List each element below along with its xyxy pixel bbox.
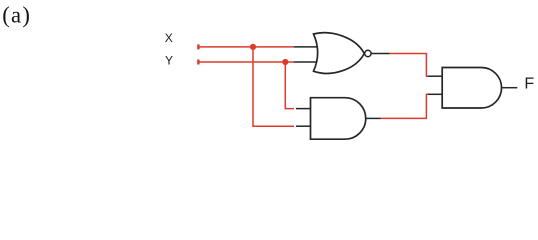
- NOR U1 input stub 2 (black): [294, 61, 317, 63]
- AND U3 output stub (black): [502, 87, 518, 89]
- AND U2 input stub 1 (black): [296, 108, 311, 110]
- wire NOR output to AND U3 upper input (red): [390, 54, 430, 77]
- AND U3 input stub 2 (black): [428, 93, 443, 95]
- AND U2 input stub 2 (black): [296, 125, 311, 127]
- junction dot on Y wire: [282, 59, 288, 65]
- wire X input terminal tick: [197, 44, 199, 49]
- and gate U2 body: [311, 98, 366, 140]
- AND U3 input stub 1 (black): [428, 75, 443, 77]
- AND U2 output stub (black): [366, 117, 381, 119]
- wire Y input terminal tick: [197, 60, 199, 65]
- wire AND U2 output to AND U3 lower input (red): [381, 94, 430, 118]
- nor gate U1 output bubble: [365, 50, 371, 56]
- wire Y input horizontal: [198, 61, 294, 63]
- svg-text:X: X: [165, 31, 173, 45]
- NOR U1 output stub (black): [371, 53, 389, 55]
- svg-text:Y: Y: [165, 54, 173, 68]
- wire X input horizontal: [198, 46, 294, 48]
- junction dot on X wire: [250, 44, 256, 50]
- and gate U3 body: [442, 68, 501, 109]
- NOR U1 input stub 1 (black): [294, 46, 317, 48]
- svg-text:F: F: [524, 76, 534, 93]
- wire X branch down to AND U2 lower input: [253, 47, 294, 126]
- svg-text:(a): (a): [2, 2, 31, 27]
- nor gate U1 body: [314, 33, 365, 74]
- wire Y branch down to AND U2 upper input: [285, 62, 294, 109]
